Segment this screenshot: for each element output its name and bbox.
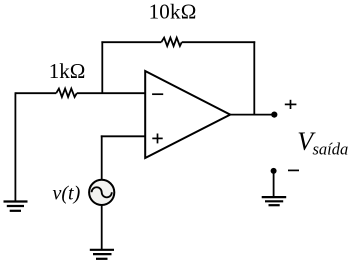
wire: top horizontal right segment	[182, 41, 256, 43]
resistor R1 1kOhm zigzag	[56, 89, 77, 97]
wire: feedback right vertical down to output	[253, 41, 255, 115]
wire: lower terminal down to ground	[273, 171, 275, 196]
ground G2 (bottom, under source)	[90, 250, 114, 259]
svg-text:saída: saída	[313, 140, 349, 159]
wire: feedback vertical at junction node	[101, 41, 103, 94]
label minus polarity at output	[288, 169, 299, 171]
wire: vertical from plus input down to source	[101, 135, 103, 180]
source V1 sine symbol	[92, 187, 112, 197]
op-amp U1 triangle	[145, 71, 230, 158]
node: output terminal dot	[271, 112, 277, 118]
wire: left vertical down to ground	[14, 92, 16, 200]
label V_saida	[297, 127, 348, 159]
wire: non-inverting input horizontal	[101, 135, 145, 137]
svg-text:10kΩ: 10kΩ	[149, 0, 197, 24]
label plus polarity at output	[285, 100, 297, 109]
svg-text:v(t): v(t)	[53, 183, 81, 205]
op-amp inverting input minus sign	[152, 93, 163, 95]
ground G1 (left)	[4, 202, 28, 211]
node: lower terminal dot	[271, 168, 277, 174]
svg-text:1kΩ: 1kΩ	[49, 59, 86, 83]
resistor R2 10kOhm zigzag	[161, 38, 181, 46]
wire: below source down to ground	[101, 205, 103, 249]
wire: input horizontal left segment	[15, 92, 56, 94]
ground G3 (right, below output)	[262, 197, 287, 205]
wire: top horizontal left segment	[101, 41, 161, 43]
wire: input horizontal right segment to op-amp inverting input	[77, 92, 145, 94]
wire: output horizontal	[230, 114, 274, 116]
op-amp non-inverting input plus sign	[152, 134, 162, 144]
source V1 sine source circle	[89, 180, 114, 205]
